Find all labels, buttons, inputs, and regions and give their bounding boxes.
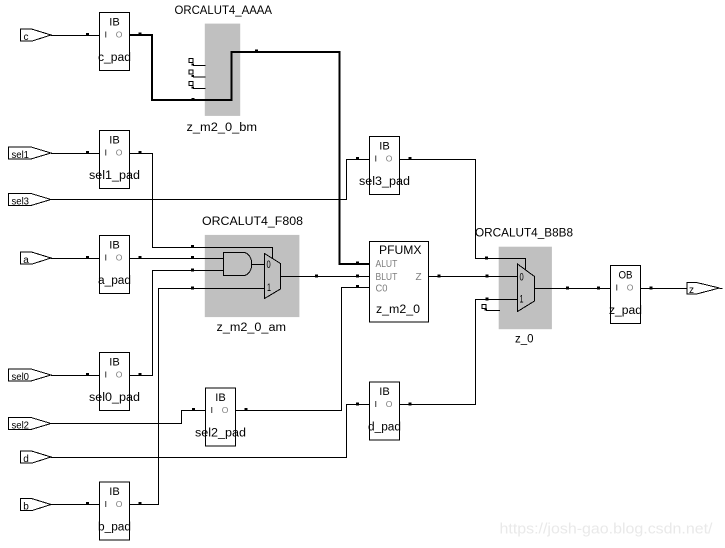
svg-text:https://josh-gao.blog.csdn.net: https://josh-gao.blog.csdn.net/ [500, 521, 714, 538]
svg-text:b_pad: b_pad [98, 522, 131, 534]
pin tick F808 out [315, 275, 318, 278]
svg-text:c_pad: c_pad [98, 52, 131, 64]
svg-text:O: O [116, 148, 123, 158]
wire net sel2: IB out to PFUMX C0 [236, 288, 370, 411]
svg-text:PFUMX: PFUMX [379, 245, 422, 257]
svg-text:IB: IB [379, 386, 390, 398]
input port pad sel1 [9, 147, 52, 161]
input buffer IB sel1_pad [89, 131, 140, 189]
wire c pad to IB [51, 35, 100, 37]
unconnected pin square B (AAAA) [189, 70, 193, 74]
svg-text:O: O [222, 405, 229, 415]
svg-text:ORCALUT4_F808: ORCALUT4_F808 [202, 216, 303, 228]
svg-text:b: b [23, 502, 29, 513]
svg-text:sel2: sel2 [12, 421, 30, 432]
svg-text:O: O [627, 283, 634, 293]
pin tick sel2 IB in [192, 408, 195, 411]
pin tick b IB out [139, 502, 142, 505]
svg-text:ORCALUT4_AAAA: ORCALUT4_AAAA [175, 5, 273, 17]
pin tick sel1 IB in [86, 151, 89, 154]
pin tick F808 AND in1 [191, 256, 194, 259]
wire net sel1: IB out to F808 mux select [130, 154, 273, 260]
svg-text:C0: C0 [376, 283, 388, 294]
input buffer IB sel0_pad [89, 353, 140, 411]
wire net b: IB out to F808 mux input 1 [130, 289, 265, 505]
input buffer IB b_pad [98, 482, 131, 540]
wire net a: IB out to AND input 1 [130, 258, 224, 260]
pin tick sel2 IB out [245, 408, 248, 411]
svg-text:0: 0 [520, 272, 524, 284]
wire sel3 pad to IB [51, 160, 370, 200]
pin tick F808 mux in1 [191, 287, 194, 290]
pin tick PFUMX Z [438, 275, 441, 278]
svg-text:O: O [116, 253, 123, 263]
svg-text:I: I [375, 154, 377, 164]
pin tick B8B8 select [485, 257, 488, 260]
AND gate (inside F808) [224, 253, 252, 276]
wire net sel3: IB out to B8B8 mux select [400, 160, 526, 271]
pin tick B8B8 out [566, 287, 569, 290]
wire sel0 pad to IB [51, 375, 100, 377]
pin tick d IB in [356, 403, 359, 406]
svg-text:c: c [24, 32, 29, 43]
svg-text:I: I [616, 283, 618, 293]
svg-text:IB: IB [109, 486, 120, 498]
output port pad z [687, 283, 723, 297]
svg-text:I: I [105, 253, 107, 263]
svg-text:I: I [105, 499, 107, 509]
unconnected pin square A (AAAA) [189, 59, 193, 63]
AND output stub [252, 264, 265, 266]
pin tick sel1 IB out [139, 151, 142, 154]
svg-text:O: O [386, 154, 393, 164]
unconnected pin square (B8B8) [482, 305, 486, 309]
pin tick d IB out [409, 403, 412, 406]
svg-text:IB: IB [109, 17, 120, 29]
wire net sel0: IB out to AND input 2 [130, 271, 224, 376]
wire sel1 pad to IB [51, 153, 100, 155]
input buffer IB a_pad [98, 236, 131, 294]
svg-text:I: I [105, 148, 107, 158]
pin tick F808 AND in2 [191, 269, 194, 272]
pin tick b IB in [86, 502, 89, 505]
svg-text:IB: IB [215, 392, 226, 404]
svg-text:ALUT: ALUT [376, 259, 398, 270]
pin tick AAAA in [192, 98, 195, 101]
input buffer IB sel3_pad [359, 137, 410, 195]
svg-text:I: I [105, 30, 107, 40]
LUT block ORCALUT4_F808 gray body [205, 235, 300, 317]
svg-text:sel1: sel1 [12, 150, 30, 161]
svg-text:O: O [116, 370, 123, 380]
pin tick sel3 IB out [409, 157, 412, 160]
input port pad c [21, 29, 52, 43]
svg-text:z_m2_0: z_m2_0 [376, 304, 420, 316]
svg-text:z_pad: z_pad [609, 305, 642, 317]
wire a pad to IB [51, 258, 100, 260]
input buffer IB d_pad [368, 382, 401, 440]
wire net z_m2_0: PFUMX Z to B8B8 mux input 0 [429, 276, 518, 278]
svg-text:O: O [386, 399, 393, 409]
input port pad b [21, 499, 52, 513]
svg-text:O: O [116, 30, 123, 40]
svg-text:sel3: sel3 [12, 197, 30, 208]
pin tick sel0 IB out [139, 373, 142, 376]
svg-text:OB: OB [619, 270, 633, 282]
svg-text:d: d [23, 454, 29, 465]
unconnected pin square C (AAAA) [189, 82, 193, 86]
LUT block ORCALUT4_B8B8 gray body [499, 247, 552, 330]
svg-text:IB: IB [379, 141, 390, 153]
svg-text:BLUT: BLUT [376, 272, 398, 283]
pin tick AAAA out [255, 50, 258, 53]
pin tick F808 select [191, 245, 194, 248]
svg-text:sel0: sel0 [12, 372, 30, 383]
LUT block ORCALUT4_AAAA gray body [205, 24, 240, 116]
svg-text:z_m2_0_am: z_m2_0_am [217, 322, 287, 334]
input port pad d [21, 451, 52, 465]
svg-text:0: 0 [267, 259, 271, 271]
svg-text:1: 1 [267, 282, 271, 294]
svg-text:IB: IB [109, 135, 120, 147]
svg-text:d_pad: d_pad [368, 422, 401, 434]
svg-text:I: I [105, 370, 107, 380]
svg-text:Z: Z [416, 272, 422, 283]
PFUMX block U z_m2_0 [370, 242, 429, 323]
svg-text:I: I [375, 399, 377, 409]
pin tick c IB in [86, 33, 89, 36]
svg-text:I: I [211, 405, 213, 415]
wire net z_m2_0_am: F808 mux out to PFUMX BLUT [281, 276, 370, 278]
input buffer IB sel2_pad [195, 388, 246, 446]
svg-text:sel0_pad: sel0_pad [89, 392, 140, 404]
svg-text:z_0: z_0 [515, 334, 534, 346]
input buffer IB c_pad [98, 13, 131, 71]
mux 2:1 (inside B8B8) [518, 264, 535, 312]
svg-text:z_m2_0_bm: z_m2_0_bm [187, 122, 258, 134]
wire net z_0: B8B8 mux out to OB [535, 288, 611, 290]
svg-text:O: O [116, 499, 123, 509]
wire b pad to IB [51, 504, 100, 506]
pin tick PFUMX ALUT [356, 262, 359, 265]
svg-text:1: 1 [520, 293, 524, 305]
pin tick a IB out [139, 256, 142, 259]
svg-text:IB: IB [109, 357, 120, 369]
input port pad sel2 [9, 418, 52, 432]
output buffer OB z_pad [609, 266, 642, 324]
input port pad sel3 [9, 194, 52, 208]
pin tick a IB in [86, 256, 89, 259]
svg-text:ORCALUT4_B8B8: ORCALUT4_B8B8 [475, 228, 573, 240]
svg-text:a: a [23, 255, 29, 266]
pin tick PFUMX C0 [356, 285, 359, 288]
svg-text:sel2_pad: sel2_pad [195, 428, 246, 440]
svg-text:sel3_pad: sel3_pad [359, 176, 410, 188]
svg-text:sel1_pad: sel1_pad [89, 170, 140, 182]
pin tick OB out [650, 287, 653, 290]
pin tick c IB out [139, 33, 142, 36]
pin tick sel3 IB in [356, 157, 359, 160]
pin tick PFUMX BLUT [356, 275, 359, 278]
wire d pad to IB [51, 405, 370, 458]
input port pad a [21, 252, 52, 266]
mux 2:1 (inside F808) [265, 254, 281, 299]
wire OB out to pad z [641, 288, 688, 290]
pin tick B8B8 mux in1 [486, 298, 489, 301]
wire net d: IB out to B8B8 mux input 1 [400, 300, 518, 405]
wire net c: IB out through LUT AAAA to PFUMX ALUT [130, 35, 370, 264]
svg-text:a_pad: a_pad [98, 275, 131, 287]
wire sel2 pad to IB [51, 411, 206, 424]
input port pad sel0 [9, 369, 52, 383]
pin tick OB in [597, 287, 600, 290]
svg-text:z: z [689, 285, 694, 296]
pin tick B8B8 mux in0 [486, 275, 489, 278]
svg-text:IB: IB [109, 240, 120, 252]
pin tick sel0 IB in [86, 373, 89, 376]
